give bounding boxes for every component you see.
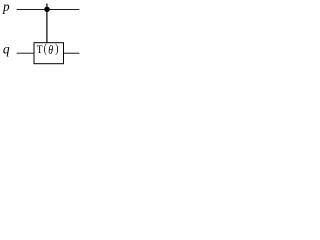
svg-text:p: p <box>2 0 10 14</box>
gate box T(theta) <box>34 43 64 64</box>
control vertical wire <box>46 4 48 43</box>
svg-text:T: T <box>37 44 43 56</box>
svg-text:(: ( <box>44 43 47 56</box>
svg-text:): ) <box>55 43 59 56</box>
wire q left segment <box>17 52 34 54</box>
svg-text:θ: θ <box>48 44 53 58</box>
control dot <box>44 7 49 12</box>
wire q right segment <box>64 52 80 54</box>
svg-text:q: q <box>3 42 10 57</box>
background <box>0 0 88 68</box>
wire p <box>17 9 80 11</box>
